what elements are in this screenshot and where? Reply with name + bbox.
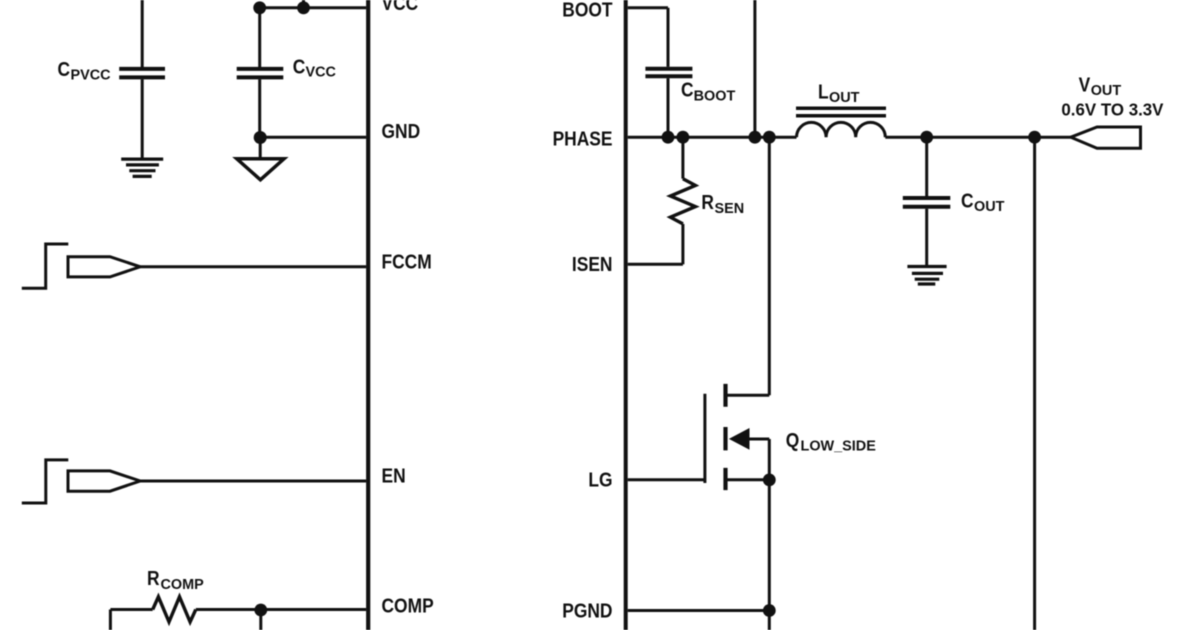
transistor Q_LOW_SIDE drain lead xyxy=(727,394,769,397)
node junction dot PHASE / C_BOOT xyxy=(662,131,675,144)
node junction dot on VCC wire (upper branch, cropped) xyxy=(297,1,310,14)
chassis ground triangle under C_VCC xyxy=(237,159,284,180)
wire C_VCC down to GND wire xyxy=(258,79,261,137)
transistor Q_LOW_SIDE channel bars xyxy=(723,384,727,490)
wire PHASE horizontal xyxy=(628,136,797,139)
FCCM step waveform symbol xyxy=(22,244,69,288)
capacitor C_BOOT xyxy=(645,69,692,77)
inductor L_OUT label xyxy=(818,81,859,107)
svg-text:PVCC: PVCC xyxy=(71,67,111,83)
svg-text:VCC: VCC xyxy=(382,0,419,14)
node junction dot COMP xyxy=(254,604,267,617)
wire COMP left segment xyxy=(110,608,152,611)
output connector VOUT xyxy=(1071,127,1141,148)
wire LG to gate xyxy=(628,478,705,481)
svg-text:PGND: PGND xyxy=(562,599,612,621)
FCCM input connector xyxy=(68,257,140,277)
node junction dot PGND xyxy=(763,604,776,617)
EN step waveform symbol xyxy=(22,460,69,503)
capacitor C_OUT label xyxy=(961,189,1004,215)
svg-text:C: C xyxy=(681,78,694,100)
svg-text:BOOT: BOOT xyxy=(562,0,613,21)
pin label ISEN xyxy=(572,253,613,275)
svg-text:C: C xyxy=(293,55,306,77)
svg-text:FCCM: FCCM xyxy=(382,250,432,272)
wire VCC rail top-left vertical to C_PVCC xyxy=(141,0,144,67)
capacitor C_OUT xyxy=(903,198,951,207)
label 0.6V TO 3.3V xyxy=(1061,99,1164,119)
node junction dot source xyxy=(763,474,776,487)
pin label BOOT xyxy=(562,0,613,21)
ground earth symbol under C_PVCC xyxy=(121,159,163,176)
transistor Q_LOW_SIDE label xyxy=(786,429,876,455)
label V_OUT xyxy=(1079,73,1122,99)
capacitor C_PVCC label xyxy=(58,58,111,84)
wire PGND horizontal xyxy=(628,609,770,612)
svg-text:OUT: OUT xyxy=(974,199,1004,215)
svg-text:COMP: COMP xyxy=(382,594,434,616)
wire EN to IC xyxy=(140,480,366,483)
pin label COMP xyxy=(382,594,434,616)
wire PHASE down to low-side drain xyxy=(768,137,771,395)
node junction dot C_OUT xyxy=(920,131,933,144)
pin label FCCM xyxy=(382,250,432,272)
resistor R_COMP xyxy=(153,597,196,622)
svg-text:V: V xyxy=(1079,73,1091,95)
svg-text:EN: EN xyxy=(382,464,406,486)
svg-text:LOW_SIDE: LOW_SIDE xyxy=(801,438,876,454)
pin label PGND xyxy=(562,599,612,621)
wire stub to chassis ground xyxy=(259,137,262,157)
wire BOOT horizontal xyxy=(628,6,668,9)
transistor Q_LOW_SIDE gate line xyxy=(703,394,706,483)
transistor Q_LOW_SIDE source lead xyxy=(727,478,769,481)
wire body to source corner xyxy=(749,438,770,441)
node junction dot PHASE / R_SEN xyxy=(677,131,690,144)
node junction dot VOUT feedback xyxy=(1028,131,1041,144)
wire BOOT down to C_BOOT xyxy=(667,8,670,67)
wire C_BOOT down to PHASE xyxy=(667,78,670,137)
capacitor C_VCC xyxy=(237,69,284,78)
node junction dot GND xyxy=(254,131,267,144)
svg-text:C: C xyxy=(961,189,974,211)
IC left edge xyxy=(366,0,370,630)
EN input connector xyxy=(68,471,140,491)
wire PHASE to VOUT xyxy=(885,136,1071,139)
svg-text:BOOT: BOOT xyxy=(694,88,736,104)
wire VOUT feedback down xyxy=(1033,137,1036,630)
resistor R_SEN label xyxy=(701,191,744,217)
svg-text:LG: LG xyxy=(588,468,612,490)
svg-text:ISEN: ISEN xyxy=(572,253,613,275)
capacitor C_PVCC xyxy=(119,69,165,78)
transistor Q_LOW_SIDE body arrow xyxy=(729,428,750,450)
svg-text:L: L xyxy=(818,81,829,103)
wire from high-side MOSFET (cropped) down to PHASE xyxy=(753,0,756,137)
svg-text:0.6V TO 3.3V: 0.6V TO 3.3V xyxy=(1061,99,1164,119)
wire GND horizontal xyxy=(260,136,367,139)
wire VCC dot down to C_VCC xyxy=(258,8,261,67)
svg-text:OUT: OUT xyxy=(829,90,859,106)
svg-text:R: R xyxy=(147,567,160,589)
pin label LG xyxy=(588,468,612,490)
node junction dot PHASE / low-side drain xyxy=(763,131,776,144)
svg-text:OUT: OUT xyxy=(1091,82,1121,98)
wire body corner down through source xyxy=(768,439,771,630)
svg-text:PHASE: PHASE xyxy=(553,127,613,149)
pin label VCC xyxy=(382,0,419,14)
wire C_PVCC to ground xyxy=(141,79,144,158)
wire COMP right segment xyxy=(196,608,366,611)
pin label EN xyxy=(382,464,406,486)
svg-text:R: R xyxy=(701,191,714,213)
inductor L_OUT core bars xyxy=(796,108,886,116)
capacitor C_BOOT label xyxy=(681,78,735,104)
resistor R_SEN xyxy=(681,137,684,179)
svg-text:COMP: COMP xyxy=(161,577,204,593)
svg-text:C: C xyxy=(58,58,71,80)
wire FCCM to IC xyxy=(140,265,366,268)
svg-text:VCC: VCC xyxy=(306,64,337,80)
inductor L_OUT windings xyxy=(797,122,886,137)
node junction dot PHASE / high-side source xyxy=(749,131,762,144)
wire R_SEN to ISEN xyxy=(681,224,684,264)
ground earth symbol under C_OUT xyxy=(907,267,946,285)
svg-text:SEN: SEN xyxy=(715,201,745,217)
svg-text:GND: GND xyxy=(382,120,421,142)
wire C_OUT to ground xyxy=(925,209,928,267)
capacitor C_VCC label xyxy=(293,55,336,81)
pin label GND xyxy=(382,120,421,142)
IC right edge xyxy=(624,0,628,630)
resistor R_COMP label xyxy=(147,567,204,593)
wire ISEN horizontal xyxy=(628,263,683,266)
wire below COMP dot xyxy=(259,610,262,630)
wire down to C_OUT xyxy=(925,137,928,196)
svg-text:Q: Q xyxy=(786,429,800,451)
wire VCC top horizontal xyxy=(260,6,367,9)
node junction dot on VCC wire (C_VCC branch) xyxy=(253,1,266,14)
pin label PHASE xyxy=(553,127,613,149)
wire COMP left leg down xyxy=(109,610,112,630)
wire stub above VCC dot (cropped) xyxy=(302,0,305,8)
